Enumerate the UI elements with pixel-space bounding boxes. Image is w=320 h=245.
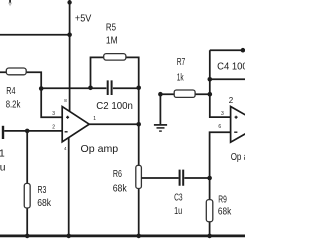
op-amp U2 minus sign (234, 131, 237, 133)
wire R6 vertical (138, 88, 140, 236)
resistor R3 (24, 183, 30, 208)
svg-text:8.2k: 8.2k (6, 100, 21, 111)
svg-text:R3: R3 (38, 185, 47, 196)
svg-text:C4 100n: C4 100n (217, 61, 245, 72)
capacitor C2 (108, 80, 112, 95)
wire C2 feedback line (41, 87, 139, 89)
wire C4 branch (210, 78, 245, 80)
wire U1 output (89, 123, 139, 125)
op-amp U1 minus sign (65, 131, 68, 133)
ground stem (159, 94, 161, 124)
resistor R5 (104, 54, 126, 61)
node C3 right junction (207, 176, 212, 181)
node C4 junction (208, 77, 213, 82)
svg-text:u: u (0, 163, 6, 174)
svg-text:2: 2 (229, 96, 234, 105)
resistor R9 (206, 200, 213, 222)
capacitor C3 (180, 170, 184, 186)
op-amp U2 (231, 107, 262, 143)
node R5 right junction (136, 86, 141, 91)
wire R3 branch (26, 131, 28, 236)
wire U2 pin 2 to C3 junction (210, 132, 231, 178)
node C2 left junction (39, 86, 44, 91)
op-amp U1 (62, 107, 89, 142)
op-amp U1 plus sign (66, 116, 69, 119)
ground rail (0, 234, 245, 237)
svg-text:C3: C3 (174, 192, 183, 203)
wire U2 pin 3 input (210, 50, 231, 117)
resistor R5 loop wires (91, 57, 139, 87)
node rail U1 pin4 (66, 234, 71, 239)
svg-text:R6: R6 (113, 169, 122, 180)
resistor R7 (174, 90, 195, 97)
svg-text:3: 3 (221, 111, 224, 117)
node U2 output junction (241, 48, 246, 53)
svg-text:+5V: +5V (75, 13, 92, 24)
capacitor C1 plate (cropped at left edge) (2, 126, 4, 139)
wire U2 feedback top (210, 49, 245, 51)
node +5V junction (67, 32, 72, 37)
node rail R6 (136, 234, 141, 239)
node +5V top junction (67, 0, 71, 4)
svg-text:1k: 1k (177, 72, 184, 83)
svg-text:6: 6 (218, 124, 221, 130)
wire U1 pin 4 to ground rail (68, 138, 70, 236)
wire +5V vertical to op-amp U1 pin 8 (69, 0, 71, 111)
node rail R9 (207, 234, 212, 239)
svg-text:1u: 1u (174, 206, 182, 217)
svg-text:1: 1 (0, 148, 5, 159)
op-amp U2 plus sign (235, 116, 238, 119)
node U1 output junction (136, 122, 141, 127)
svg-text:R4: R4 (6, 86, 15, 97)
wire +5V rail (0, 34, 70, 36)
svg-text:C2 100n: C2 100n (96, 101, 133, 112)
resistor R4 (6, 68, 26, 75)
svg-text:68k: 68k (37, 198, 52, 209)
wire R7 (160, 93, 209, 95)
svg-text:Op amp: Op amp (81, 144, 119, 155)
svg-text:R5: R5 (106, 22, 116, 33)
svg-text:R9: R9 (218, 194, 227, 205)
wire C3 line (141, 177, 209, 179)
ground symbol (154, 125, 167, 131)
svg-text:2: 2 (52, 124, 55, 130)
wire R9 vertical (209, 178, 211, 236)
svg-text:1M: 1M (106, 36, 118, 47)
node ground junction (158, 92, 163, 97)
node R5 left junction (88, 86, 93, 91)
svg-text:R7: R7 (177, 57, 186, 68)
svg-text:68k: 68k (113, 183, 128, 194)
resistor R6 (136, 165, 142, 188)
input arrow remnant (top-left, cropped) (8, 0, 12, 6)
wire R4 input to op-amp U1 pin 3 (0, 72, 62, 117)
node rail R3 (25, 234, 30, 239)
svg-text:1: 1 (93, 116, 96, 122)
node R3 top junction (25, 129, 30, 134)
svg-text:3: 3 (52, 111, 55, 117)
svg-text:Op amp: Op amp (231, 152, 245, 163)
svg-text:68k: 68k (218, 207, 232, 218)
node R7 right junction (208, 92, 213, 97)
wire C1 to op-amp U1 pin 2 (4, 130, 62, 132)
